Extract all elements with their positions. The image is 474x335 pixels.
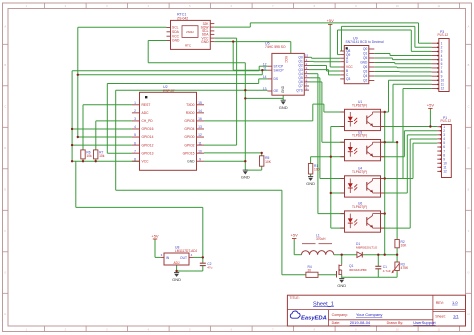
svg-text:14: 14 [263,75,267,79]
svg-text:GND: GND [201,40,209,44]
svg-text:6: 6 [134,141,136,145]
svg-text:TLP627(F): TLP627(F) [352,134,367,138]
svg-text:GND: GND [279,105,288,110]
svg-text:GND: GND [337,283,346,288]
svg-text:TITLE:: TITLE: [289,296,299,300]
svg-text:Q6: Q6 [363,65,367,69]
svg-text:B: B [468,63,470,67]
svg-text:1/1: 1/1 [453,313,459,318]
svg-text:H: H [468,312,470,316]
svg-text:3: 3 [134,117,136,121]
svg-text:TLP627(F): TLP627(F) [352,170,367,174]
svg-text:RTC: RTC [185,44,192,48]
svg-text:PLS-12: PLS-12 [438,33,449,37]
svg-text:Sheet_1: Sheet_1 [313,301,334,307]
svg-text:13: 13 [198,125,202,129]
svg-text:5: 5 [134,133,136,137]
svg-text:GND: GND [281,85,285,93]
svg-text:GPIO13: GPIO13 [142,151,154,155]
svg-text:E: E [468,188,470,192]
svg-text:10K: 10K [265,160,272,164]
svg-text:Your Company: Your Company [356,312,382,317]
svg-text:TLP627(F): TLP627(F) [352,205,367,209]
svg-text:12: 12 [443,170,447,174]
svg-text:Q2: Q2 [363,79,367,83]
svg-text:11: 11 [198,141,202,145]
svg-text:ZS-042: ZS-042 [177,16,188,20]
svg-text:15: 15 [198,101,202,105]
svg-text:Q4: Q4 [363,74,367,78]
svg-text:ZS042: ZS042 [186,30,194,34]
svg-text:4: 4 [134,125,136,129]
svg-text:MBR0520LT1G: MBR0520LT1G [356,246,378,250]
svg-text:D: D [468,146,470,150]
svg-text:PLS-12: PLS-12 [441,119,452,123]
svg-text:Q7S: Q7S [296,88,303,92]
svg-text:GPIO14: GPIO14 [142,135,154,139]
svg-text:GPIO15: GPIO15 [183,151,195,155]
svg-text:+5V: +5V [327,18,335,23]
svg-text:Q3: Q3 [363,70,367,74]
svg-text:G: G [4,271,6,275]
svg-text:LM1117DT-ADJ: LM1117DT-ADJ [175,249,198,253]
svg-text:H: H [4,312,6,316]
svg-text:SH/CP: SH/CP [274,68,285,72]
svg-text:47u: 47u [207,265,212,269]
svg-text:12: 12 [441,87,445,91]
svg-text:ADJ: ADJ [173,261,179,265]
svg-text:A: A [4,24,6,28]
svg-text:D: D [4,146,6,150]
svg-text:IRF9431PBF: IRF9431PBF [349,268,367,272]
svg-text:GND: GND [360,61,368,65]
svg-text:TLP627(F): TLP627(F) [352,104,367,108]
svg-text:EasyEDA: EasyEDA [301,315,327,321]
svg-text:G: G [467,271,469,275]
svg-text:475K: 475K [401,266,410,270]
svg-text:GND: GND [306,181,315,186]
svg-text:GPIO4: GPIO4 [184,127,194,131]
svg-text:VCC: VCC [284,56,288,63]
svg-text:1: 1 [134,101,136,105]
svg-text:12: 12 [198,133,202,137]
svg-text:4.7uF: 4.7uF [383,269,391,273]
svg-text:Sheet:: Sheet: [435,314,445,318]
svg-text:20: 20 [308,268,312,272]
svg-text:11: 11 [263,66,267,70]
svg-text:E: E [4,188,6,192]
svg-text:OE: OE [274,89,280,93]
svg-text:B: B [4,63,6,67]
svg-text:10: 10 [198,149,202,153]
svg-text:370uH: 370uH [316,237,326,241]
svg-text:Date:: Date: [332,321,341,325]
svg-text:DS: DS [274,77,279,81]
svg-text:100: 100 [314,168,320,172]
svg-text:Company:: Company: [332,313,348,317]
svg-text:9: 9 [199,157,201,161]
svg-text:ESP-07: ESP-07 [163,89,175,93]
svg-text:Q5: Q5 [363,56,367,60]
svg-text:2: 2 [134,109,136,113]
svg-text:13: 13 [263,87,267,91]
svg-text:Drawn By:: Drawn By: [387,321,404,325]
svg-text:GPIO5: GPIO5 [184,119,194,123]
svg-text:Q3: Q3 [346,77,350,81]
svg-text:2019-08-04: 2019-08-04 [350,320,371,325]
svg-text:14: 14 [198,109,202,113]
svg-text:GPIO0: GPIO0 [184,135,194,139]
svg-text:REST: REST [142,103,151,107]
svg-text:74HC 595 SO: 74HC 595 SO [265,45,286,49]
svg-text:10k: 10k [86,154,92,158]
svg-text:1.0: 1.0 [452,300,458,305]
svg-text:Q1: Q1 [363,52,367,56]
svg-text:C: C [468,105,470,109]
svg-text:+5V: +5V [427,102,435,107]
svg-text:7: 7 [134,149,136,153]
svg-text:Q0: Q0 [363,47,367,51]
svg-text:GPIO12: GPIO12 [142,143,154,147]
svg-text:10K: 10K [401,244,408,248]
svg-text:GPIO16: GPIO16 [142,127,154,131]
svg-text:TXD0: TXD0 [186,103,195,107]
svg-text:UserSupport: UserSupport [413,320,436,325]
svg-text:OUT: OUT [180,256,187,260]
svg-text:ADC: ADC [142,111,150,115]
svg-text:VCC: VCC [142,159,150,163]
svg-text:A: A [468,24,470,28]
svg-text:+5V: +5V [151,233,159,238]
svg-text:SDA: SDA [172,30,180,34]
svg-text:8: 8 [134,157,136,161]
svg-text:C: C [4,105,6,109]
svg-text:SN74141 BCD to Decimal: SN74141 BCD to Decimal [346,40,384,44]
svg-text:CH_PD: CH_PD [142,119,154,123]
svg-text:GPIO2: GPIO2 [184,143,194,147]
svg-text:16: 16 [198,117,202,121]
svg-text:REV:: REV: [436,301,444,305]
svg-text:GND: GND [241,175,250,180]
svg-text:GND: GND [172,277,181,282]
svg-text:+5V: +5V [291,232,299,237]
svg-text:GND: GND [187,159,195,163]
svg-text:10k: 10k [99,154,105,158]
svg-text:RXD0: RXD0 [186,111,195,115]
svg-text:GND: GND [172,39,180,43]
